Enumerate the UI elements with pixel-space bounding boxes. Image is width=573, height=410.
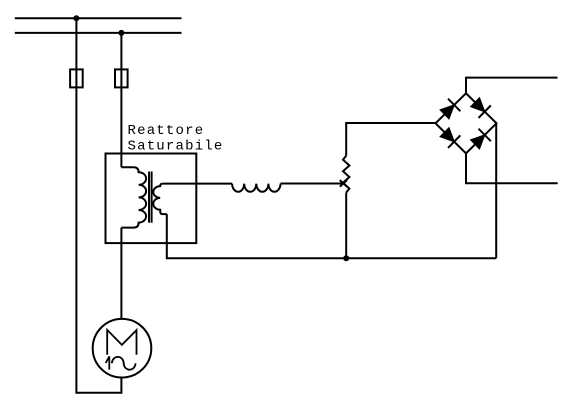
inductor L1 (232, 184, 280, 192)
wire secondary top to inductor (163, 183, 232, 185)
diode D4 (bottom to right edge) (469, 129, 491, 151)
motor sine wave (112, 357, 136, 370)
diode D1 (left to top edge) (439, 99, 461, 121)
bus line L2 (15, 32, 182, 34)
fuse F2 (115, 69, 128, 87)
wiper arrow X (340, 180, 347, 187)
wire pot top to bridge left corner (346, 123, 435, 156)
diode D3 (left to bottom edge) (439, 126, 461, 148)
fuse F1 (70, 69, 83, 87)
wire primary to motor (120, 228, 122, 319)
saturable reactor secondary winding (153, 184, 167, 215)
wire right conductor upper (bus L2 through fuse F2 down to reactor primary) (120, 33, 122, 167)
potentiometer R1 zigzag (343, 156, 349, 193)
junction dot on return wire (343, 255, 349, 261)
motor digit 1 (106, 356, 110, 369)
wire bridge top corner to upper output (466, 78, 558, 94)
reactor core (148, 172, 150, 223)
diode D2 (top to right edge) (469, 96, 491, 118)
wire inductor to wiper (281, 183, 344, 185)
bus line L1 (15, 17, 182, 19)
junction dot on L1 (73, 15, 79, 21)
svg-text:Saturabile: Saturabile (128, 139, 224, 155)
junction dot on L2 (118, 30, 124, 36)
wire bridge bottom corner to lower output (466, 153, 558, 183)
bridge diamond (436, 93, 497, 153)
motor M1 circle (93, 319, 152, 378)
saturable reactor primary winding (121, 167, 146, 227)
motor letter M (107, 330, 136, 355)
reactor enclosure box (106, 154, 197, 244)
wire bridge right corner down (495, 123, 497, 258)
wire left conductor (bus L1 through fuse F1 down and across to motor bottom) (76, 18, 121, 393)
wire pot bottom (345, 193, 347, 259)
svg-text:Reattore: Reattore (128, 123, 205, 139)
return wire (secondary bottom to bridge right corner) (167, 214, 496, 258)
